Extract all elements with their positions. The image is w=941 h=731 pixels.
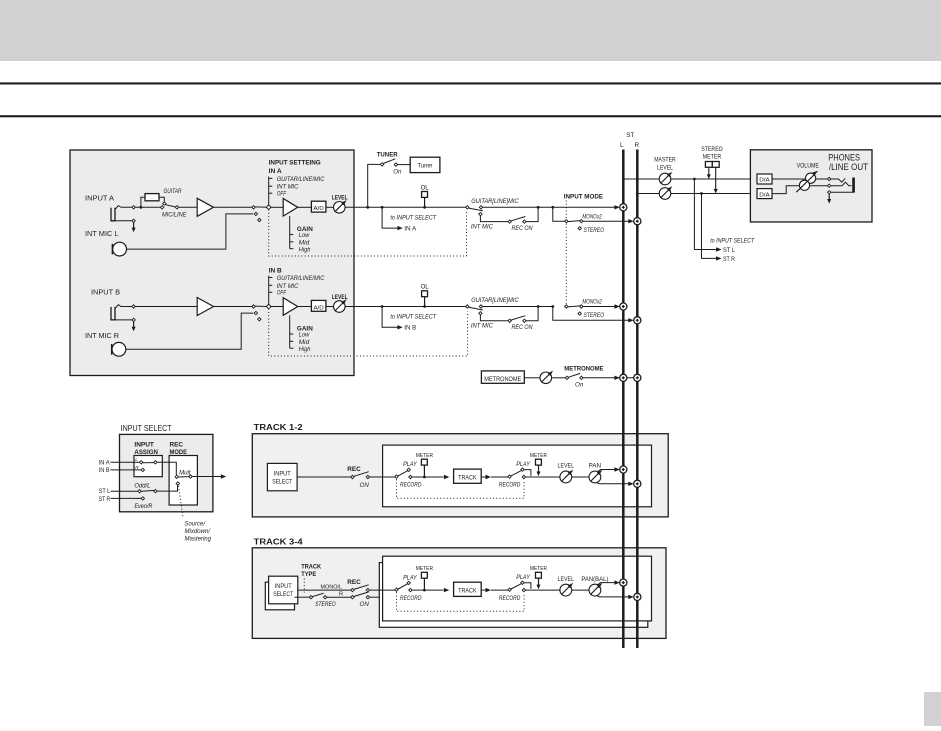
- block TRACK: [454, 469, 482, 483]
- wire ST out: [157, 485, 178, 491]
- arrow out of track: [481, 589, 485, 591]
- sum node A R: [634, 218, 641, 225]
- svg-text:ON: ON: [360, 482, 370, 489]
- wire to INPUT SELECT IN A: [382, 207, 397, 228]
- svg-text:High: High: [299, 246, 311, 253]
- track 1-2 box: [252, 434, 668, 517]
- input assign box: [134, 456, 162, 477]
- contact IN B assign: [141, 468, 144, 471]
- svg-text:INPUT: INPUT: [274, 471, 291, 477]
- jack INPUT A: [111, 208, 115, 221]
- wire PAN to R sum: [597, 483, 630, 484]
- amp B2: [283, 298, 298, 316]
- volume ganged arrow: [796, 174, 815, 192]
- switch input assign: [140, 461, 143, 464]
- svg-text:ON: ON: [360, 601, 370, 608]
- block TRACK: [454, 582, 482, 596]
- wire main A to mode junction: [483, 206, 553, 208]
- svg-text:Mixdown/: Mixdown/: [185, 528, 212, 535]
- wire input select to rec 1-2: [297, 476, 351, 478]
- block METRONOME: [481, 371, 524, 383]
- knob PAN track: [589, 584, 601, 596]
- contact PLAY right: [521, 581, 524, 584]
- switch track left play/record: [395, 588, 398, 591]
- wire B input to amp: [135, 306, 197, 308]
- phones line out box: [750, 150, 872, 222]
- contact RECORD right: [522, 588, 525, 591]
- svg-text:LEVEL: LEVEL: [332, 195, 348, 202]
- svg-text:STEREO: STEREO: [701, 146, 723, 153]
- knob MASTER LEVEL L: [659, 173, 671, 185]
- wire D/A R to volume: [772, 186, 828, 194]
- A/D converter A: [311, 201, 326, 212]
- microphone INT MIC R: [112, 342, 126, 356]
- svg-text:LEVEL: LEVEL: [558, 577, 575, 583]
- amp B1: [197, 298, 213, 316]
- selector IN B contacts: [252, 305, 255, 308]
- svg-text:INPUT: INPUT: [134, 441, 154, 448]
- contact RECORD left: [409, 588, 412, 591]
- svg-text:Even/R: Even/R: [134, 503, 152, 510]
- svg-text:RECORD: RECORD: [499, 595, 521, 602]
- svg-text:TRACK: TRACK: [301, 564, 321, 571]
- node IN B selector: [267, 305, 271, 309]
- knob VOLUME R: [799, 180, 809, 190]
- bracket GAIN A: [289, 216, 291, 249]
- dotted control IN B to INT MIC switch: [269, 309, 468, 356]
- wire play step right: [524, 470, 531, 476]
- wire mono line 3-4: [298, 589, 351, 591]
- svg-text:REC: REC: [347, 466, 361, 473]
- svg-text:PAN: PAN: [589, 464, 601, 470]
- bus R: [636, 150, 639, 649]
- wire to amp A1: [179, 206, 198, 208]
- wire R line 3-4: [295, 596, 310, 598]
- svg-text:METER: METER: [530, 566, 547, 572]
- svg-text:D/A: D/A: [759, 178, 770, 184]
- svg-text:RECORD: RECORD: [400, 595, 422, 602]
- wire main B to mode junction: [483, 306, 553, 308]
- wire D/A L to volume: [772, 178, 828, 180]
- wire to INPUT SELECT ST R: [702, 194, 718, 259]
- svg-text:Low: Low: [299, 332, 310, 339]
- wire LEVEL to PAN: [572, 476, 589, 478]
- svg-text:LEVEL: LEVEL: [558, 464, 575, 470]
- wire record to track: [412, 589, 444, 591]
- svg-text:VOLUME: VOLUME: [797, 162, 819, 169]
- wire IN A select: [111, 461, 140, 463]
- node tuner tap: [366, 206, 369, 209]
- switch track left play/record: [395, 475, 398, 478]
- svg-text:GUITAR[LINE]MIC: GUITAR[LINE]MIC: [471, 198, 519, 205]
- node master R tap: [636, 192, 639, 195]
- meter track left: [421, 572, 427, 578]
- svg-text:MIC/LINE: MIC/LINE: [162, 212, 187, 219]
- svg-text:REC ON: REC ON: [512, 225, 533, 232]
- svg-text:L: L: [135, 457, 138, 462]
- sum node A L: [620, 204, 627, 211]
- jack contact sleeve: [828, 191, 831, 194]
- bus L: [622, 150, 625, 649]
- page header band: [0, 0, 941, 61]
- svg-text:MONOx2: MONOx2: [582, 213, 602, 220]
- sum node track 1-2 R: [634, 480, 641, 487]
- sum node metronome R bus: [634, 374, 641, 381]
- knob VOLUME L: [806, 173, 816, 183]
- resistor GUITAR pad: [141, 197, 145, 207]
- svg-text:INPUT SELECT: INPUT SELECT: [121, 423, 172, 433]
- svg-text:STEREO: STEREO: [584, 227, 605, 234]
- wire node A to amp A2: [271, 206, 284, 208]
- wire rec mode out: [192, 476, 221, 478]
- contact PLAY left: [407, 581, 410, 584]
- wire PAN to R sum: [597, 596, 630, 597]
- switch rec mode: [175, 475, 178, 478]
- dotted track type control: [303, 579, 305, 593]
- svg-text:SELECT: SELECT: [273, 592, 293, 598]
- svg-text:RECORD: RECORD: [499, 482, 521, 489]
- svg-text:OFF: OFF: [277, 191, 287, 198]
- svg-text:TRACK: TRACK: [458, 588, 477, 595]
- switch GUITAR[LINE]MIC A: [466, 206, 469, 209]
- wire A/D B to LEVEL: [326, 306, 334, 308]
- contact STEREO B: [578, 312, 581, 315]
- switch STEREO 3-4: [309, 596, 312, 599]
- knob LEVEL B: [334, 301, 346, 313]
- switch ST select: [138, 490, 141, 493]
- svg-text:REC ON: REC ON: [512, 324, 533, 331]
- contact diamond A input: [132, 206, 135, 209]
- wire A input to switch: [135, 206, 161, 208]
- svg-text:TRACK: TRACK: [458, 474, 477, 481]
- svg-text:to INPUT SELECT: to INPUT SELECT: [390, 314, 437, 321]
- rec mode box: [169, 456, 197, 506]
- knob LEVEL A: [334, 202, 346, 214]
- svg-text:PLAY: PLAY: [516, 574, 530, 581]
- svg-text:OL: OL: [421, 284, 430, 291]
- wire to INPUT SELECT IN B: [382, 307, 397, 328]
- wire to LEVEL: [526, 589, 561, 591]
- svg-text:INT MIC R: INT MIC R: [85, 331, 119, 340]
- svg-text:ST L: ST L: [99, 488, 111, 495]
- wire stereo to rec 3-4: [327, 596, 351, 598]
- svg-text:STEREO: STEREO: [584, 312, 605, 319]
- arrow into track: [444, 475, 449, 479]
- svg-text:A/D: A/D: [313, 206, 324, 212]
- svg-text:IN B: IN B: [99, 467, 110, 474]
- wire amp B1 to selector: [214, 306, 253, 308]
- svg-text:TUNER: TUNER: [377, 152, 398, 159]
- wire INT MIC path B: [480, 315, 508, 321]
- microphone INT MIC L: [112, 242, 126, 256]
- jack contact tip: [828, 177, 831, 180]
- svg-text:to INPUT SELECT: to INPUT SELECT: [390, 214, 437, 221]
- svg-text:LEVEL: LEVEL: [657, 165, 673, 172]
- switch tuner On: [380, 163, 383, 166]
- node IN A tap: [381, 206, 384, 209]
- svg-text:INT MIC L: INT MIC L: [85, 229, 119, 238]
- svg-text:METER: METER: [703, 153, 722, 160]
- wire REC to inner 3-4: [370, 589, 396, 591]
- arrow out of track: [481, 476, 485, 478]
- amp A1: [197, 198, 213, 216]
- block INPUT SELECT 3-4: [269, 576, 298, 604]
- wire A mode branch: [553, 207, 565, 221]
- switch REC 1-2: [351, 475, 354, 478]
- svg-text:TRACK 3-4: TRACK 3-4: [254, 536, 303, 546]
- ground jack A: [113, 220, 132, 222]
- svg-text:PAN(BAL): PAN(BAL): [581, 577, 608, 583]
- wire B mode branch to R sum: [553, 307, 629, 321]
- sum node track 3-4 R: [634, 593, 641, 600]
- dotted control INPUT MODE: [565, 201, 567, 305]
- wire INT MIC R to selector: [126, 313, 253, 349]
- svg-text:to INPUT SELECT: to INPUT SELECT: [710, 237, 755, 244]
- svg-text:MONO/L: MONO/L: [321, 584, 343, 590]
- svg-text:IN B: IN B: [404, 325, 417, 332]
- svg-text:Mult: Mult: [179, 469, 191, 476]
- contact ST R select: [141, 497, 144, 500]
- svg-text:PLAY: PLAY: [403, 461, 417, 468]
- wire node B to amp B2: [271, 306, 284, 308]
- switch track right play/record: [508, 588, 511, 591]
- wire master R: [637, 193, 757, 195]
- wire to Tuner box: [398, 164, 411, 166]
- wire IN B select: [111, 469, 142, 471]
- wire jack B to line: [115, 305, 132, 309]
- wire REC to switch 1-2: [370, 476, 396, 478]
- wire play step right: [524, 583, 531, 589]
- wire LEVEL B out: [345, 306, 466, 308]
- node ST L tap: [693, 178, 696, 181]
- wire record to track: [412, 476, 444, 478]
- svg-text:IN A: IN A: [404, 226, 417, 233]
- wire ST R select: [111, 497, 142, 499]
- svg-text:REC: REC: [170, 441, 184, 448]
- wire LEVEL A out: [345, 206, 466, 208]
- svg-text:METER: METER: [530, 453, 547, 459]
- amp A2: [283, 199, 298, 217]
- track 3-4 box: [252, 548, 666, 639]
- svg-text:GUITAR/LINE/MIC: GUITAR/LINE/MIC: [277, 176, 325, 183]
- contact PLAY right: [521, 468, 524, 471]
- svg-text:TYPE: TYPE: [301, 571, 317, 578]
- switch GUITAR/MIC-LINE: [163, 202, 166, 205]
- switch REC ON B: [508, 319, 511, 322]
- wire metronome to knob: [524, 377, 540, 379]
- node IN A selector: [267, 206, 271, 210]
- svg-text:RECORD: RECORD: [400, 482, 422, 489]
- selector IN A contacts: [252, 206, 255, 209]
- wire REC ON B to main: [526, 307, 538, 321]
- wire jack A to line: [115, 206, 132, 210]
- ground phones: [828, 194, 830, 199]
- track 1-2 inner box: [383, 445, 652, 507]
- A/D converter B: [311, 300, 326, 311]
- bracket GAIN B: [289, 315, 291, 348]
- switch MONOx2/STEREO B: [565, 305, 568, 308]
- wire REC ON A to main: [526, 207, 538, 221]
- svg-text:Mastering: Mastering: [185, 536, 212, 543]
- svg-text:A/D: A/D: [313, 305, 324, 311]
- wire tuner branch: [368, 164, 381, 207]
- svg-text:Low: Low: [299, 232, 310, 239]
- wire amp A2 to A/D: [298, 206, 312, 208]
- svg-text:METER: METER: [416, 566, 433, 572]
- switch track right play/record: [508, 475, 511, 478]
- wire to INPUT SELECT ST L: [694, 179, 717, 250]
- wire to LEVEL: [526, 476, 561, 478]
- meter track left: [421, 459, 427, 465]
- wire master L: [623, 178, 757, 180]
- track 3-4 inner box shadow: [379, 563, 648, 628]
- svg-text:R: R: [634, 142, 639, 149]
- wire assign out: [157, 462, 176, 475]
- contact diamond B input: [132, 305, 135, 308]
- bracket IN B selector: [268, 276, 270, 305]
- svg-text:STEREO: STEREO: [315, 601, 336, 608]
- knob metronome level: [540, 372, 552, 384]
- contact INT MIC A: [479, 212, 482, 215]
- jack body PHONES: [852, 178, 855, 193]
- meter STEREO L: [705, 162, 712, 168]
- meter track right: [536, 572, 542, 578]
- svg-text:REC: REC: [347, 579, 361, 586]
- svg-text:Odd/L: Odd/L: [134, 483, 151, 490]
- svg-text:ST L: ST L: [723, 247, 735, 254]
- D/A converter R: [757, 189, 772, 199]
- wire PAN to L sum: [598, 470, 616, 472]
- wire track to right switch: [491, 476, 508, 478]
- dotted track switch link: [397, 592, 525, 611]
- D/A converter L: [757, 174, 772, 184]
- input select box: [120, 434, 213, 511]
- node A guitar branch: [140, 206, 143, 209]
- block INPUT SELECT 1-2: [267, 463, 297, 490]
- meter track right: [536, 459, 542, 465]
- wire metronome to bus: [583, 377, 634, 379]
- knob LEVEL track: [560, 584, 572, 596]
- contact RECORD right: [522, 475, 525, 478]
- wire PAN to L sum: [598, 583, 616, 585]
- wire track to right switch: [491, 589, 508, 591]
- switch MONOx2/STEREO A: [565, 220, 568, 223]
- knob LEVEL track: [560, 471, 572, 483]
- svg-text:On: On: [393, 169, 402, 176]
- svg-text:D/A: D/A: [759, 192, 770, 198]
- sum node metronome L bus: [620, 374, 627, 381]
- svg-text:PLAY: PLAY: [403, 574, 417, 581]
- block Tuner: [410, 157, 440, 172]
- header rule upper: [0, 82, 941, 84]
- sum node track 3-4 L: [620, 579, 627, 586]
- dotted rec mode control: [179, 486, 184, 518]
- switch GUITAR[LINE]MIC B: [466, 305, 469, 308]
- contact PLAY left: [407, 468, 410, 471]
- wire A to L sum: [553, 206, 615, 208]
- svg-text:INPUT SETTEING: INPUT SETTEING: [269, 159, 321, 166]
- block INPUT SELECT 3-4 shadow: [265, 582, 294, 610]
- svg-text:IN B: IN B: [269, 267, 282, 274]
- svg-text:INPUT A: INPUT A: [85, 193, 114, 202]
- wire ST L select: [111, 490, 139, 492]
- svg-text:/LINE OUT: /LINE OUT: [829, 162, 869, 172]
- svg-text:INPUT MODE: INPUT MODE: [564, 194, 604, 201]
- svg-text:L: L: [620, 142, 624, 149]
- svg-text:INT MIC: INT MIC: [471, 323, 494, 330]
- jack ring spring: [831, 182, 852, 186]
- contact STEREO A: [578, 227, 581, 230]
- svg-text:OL: OL: [421, 184, 430, 191]
- svg-text:IN A: IN A: [269, 168, 282, 175]
- switch REC 3-4 lower: [351, 596, 354, 599]
- switch REC 3-4 upper: [351, 588, 354, 591]
- header rule lower: [0, 115, 941, 117]
- wire A to R sum: [583, 220, 629, 222]
- dotted track switch link: [397, 479, 525, 498]
- contact INT MIC B: [479, 312, 482, 315]
- switch REC ON A: [508, 220, 511, 223]
- knob PAN track: [589, 471, 601, 483]
- wire INT MIC path A: [480, 216, 508, 222]
- bracket IN A selector: [268, 177, 270, 206]
- svg-text:On: On: [575, 382, 584, 389]
- ground jack B: [113, 319, 132, 321]
- svg-text:LEVEL: LEVEL: [332, 294, 348, 301]
- svg-text:GUITAR: GUITAR: [164, 188, 182, 195]
- jack tip spring: [831, 178, 845, 182]
- jack contact ring: [828, 184, 831, 187]
- sum node track 1-2 L: [620, 466, 627, 473]
- svg-text:GUITAR[LINE]MIC: GUITAR[LINE]MIC: [471, 297, 519, 304]
- svg-text:PLAY: PLAY: [516, 461, 530, 468]
- svg-text:ST R: ST R: [99, 496, 111, 503]
- node ST R tap: [700, 192, 703, 195]
- page footer block: [924, 692, 941, 726]
- svg-text:MONOx2: MONOx2: [582, 299, 602, 306]
- svg-text:Tuner: Tuner: [418, 163, 434, 170]
- svg-text:ST R: ST R: [723, 256, 735, 263]
- sum node B L: [620, 303, 627, 310]
- contact RECORD left: [409, 475, 412, 478]
- dotted control IN A to INT MIC switch: [269, 210, 467, 257]
- svg-text:R: R: [339, 592, 343, 598]
- wire LEVEL to PAN: [572, 589, 589, 591]
- wire REC lower to shadow box: [370, 596, 380, 598]
- svg-text:METER: METER: [416, 453, 433, 459]
- wire amp A1 to selector: [214, 206, 253, 208]
- knob MASTER LEVEL R: [659, 188, 671, 200]
- wire B to L sum: [583, 306, 615, 308]
- jack sleeve wire: [831, 191, 854, 193]
- svg-text:IN A: IN A: [99, 459, 111, 466]
- svg-text:TRACK 1-2: TRACK 1-2: [254, 422, 303, 432]
- node master L tap: [622, 178, 625, 181]
- svg-text:INT MIC: INT MIC: [471, 224, 494, 231]
- svg-text:Source/: Source/: [185, 521, 207, 528]
- svg-text:METRONOME: METRONOME: [564, 366, 604, 373]
- svg-text:METRONOME: METRONOME: [484, 377, 521, 383]
- sum node B R: [634, 317, 641, 324]
- svg-text:SELECT: SELECT: [272, 479, 292, 485]
- svg-text:OFF: OFF: [277, 290, 287, 297]
- wire knob to switch: [552, 377, 566, 379]
- wire A/D A to LEVEL: [326, 206, 334, 208]
- contact rec mode lower: [176, 482, 179, 485]
- svg-text:INPUT: INPUT: [275, 584, 292, 590]
- svg-text:MASTER: MASTER: [654, 157, 676, 164]
- svg-text:High: High: [299, 346, 311, 353]
